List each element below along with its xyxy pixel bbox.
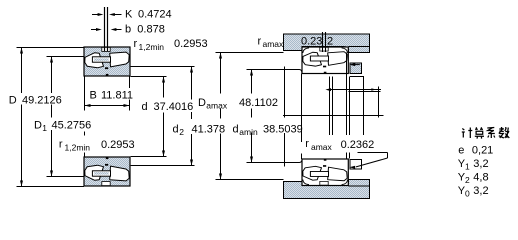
d extension bottom [131, 156, 167, 158]
svg-text:1,2min: 1,2min [139, 42, 165, 52]
B extension lines [85, 76, 130, 111]
shaft step lines top [350, 76, 364, 78]
rollers top [85, 47, 129, 76]
rollers top right [303, 47, 347, 73]
D1 dimension line [51, 57, 53, 177]
svg-text:e: e [458, 145, 464, 157]
rollers bottom (mirrored) [85, 157, 129, 186]
svg-text:0.4724: 0.4724 [138, 9, 172, 21]
svg-text:0: 0 [465, 189, 470, 199]
lube hole lines right figure [322, 32, 324, 52]
svg-text:3,2: 3,2 [473, 185, 488, 197]
svg-text:3,2: 3,2 [473, 158, 488, 170]
svg-text:0,21: 0,21 [472, 145, 493, 157]
svg-text:0.2953: 0.2953 [101, 139, 135, 151]
Damax extension top [216, 52, 284, 54]
svg-text:b: b [125, 24, 131, 36]
shaft end face [284, 67, 286, 118]
cage inner hatch top [94, 58, 109, 60]
b dimension arrows [91, 29, 122, 31]
Damax extension bottom [216, 179, 284, 181]
bearing block bottom right [302, 159, 348, 186]
d extension top [131, 76, 167, 78]
K dimension arrows [92, 14, 122, 16]
svg-text:1: 1 [465, 162, 470, 172]
axis centerline [283, 115, 384, 117]
svg-text:38.5039: 38.5039 [263, 124, 303, 136]
svg-text:D: D [34, 120, 42, 132]
svg-text:r: r [59, 139, 63, 151]
d2 extension top [131, 66, 195, 68]
svg-text:0.878: 0.878 [137, 24, 165, 36]
svg-text:1,2min: 1,2min [65, 143, 91, 153]
damin dimension line [251, 70, 253, 163]
svg-text:11.811: 11.811 [101, 90, 133, 102]
计 [462, 128, 473, 139]
damin extension top [247, 69, 285, 71]
svg-text:1: 1 [42, 123, 47, 133]
B dimension line [85, 105, 130, 107]
bearing block bottom [84, 157, 130, 186]
damin extension bottom [247, 162, 285, 164]
svg-text:amax: amax [263, 39, 285, 49]
lubrication hole lines [104, 7, 106, 51]
d dimension line [163, 77, 165, 157]
svg-text:d: d [233, 124, 239, 136]
cage inner hatch bottom [94, 172, 109, 174]
svg-text:49.2126: 49.2126 [22, 95, 62, 107]
outer ring corner arcs bottom right block [303, 180, 348, 185]
svg-text:d: d [173, 124, 179, 136]
svg-text:r: r [305, 138, 309, 150]
collar bottom [350, 160, 362, 170]
r bottom leader ticks [84, 132, 86, 136]
svg-text:2: 2 [327, 36, 333, 48]
shaft shoulder bottom surface [285, 159, 303, 163]
collar top [350, 63, 362, 74]
svg-text:amin: amin [239, 127, 258, 137]
svg-text:2: 2 [465, 175, 470, 185]
bearing block top [84, 47, 130, 76]
housing bore line under top shoulder [349, 46, 370, 48]
middle silhouette verticals [302, 53, 364, 160]
d2 dimension line [191, 67, 193, 166]
svg-text:4,8: 4,8 [473, 172, 488, 184]
shaft shoulder top surface [285, 70, 303, 74]
svg-text:D: D [9, 95, 17, 107]
D dimension line [21, 48, 23, 187]
算 [475, 127, 484, 138]
svg-text:amax: amax [311, 142, 333, 152]
svg-text:r: r [258, 36, 262, 48]
svg-text:amax: amax [206, 101, 228, 111]
D1 extension top [47, 56, 85, 58]
svg-text:B: B [90, 90, 97, 102]
D extension top [17, 47, 85, 49]
svg-text:K: K [125, 9, 133, 21]
d2 extension bottom [131, 165, 195, 167]
svg-text:37.4016: 37.4016 [154, 101, 194, 113]
svg-text:r: r [134, 38, 138, 50]
svg-text:d: d [142, 101, 148, 113]
svg-text:45.2756: 45.2756 [52, 120, 92, 132]
ra bottom leader [358, 152, 388, 154]
housing bottom [284, 180, 370, 199]
D1 extension bottom [47, 176, 85, 178]
housing bore line under bottom shoulder [349, 185, 370, 187]
housing top [284, 34, 370, 53]
svg-text:2: 2 [179, 127, 184, 137]
数 [499, 127, 510, 138]
系 [487, 128, 495, 139]
svg-text:D: D [198, 97, 206, 109]
bearing block top right [302, 47, 348, 74]
title 计算系数 (drawn glyphs) [462, 127, 510, 139]
ra top arrow [349, 63, 355, 66]
svg-text:48.1102: 48.1102 [239, 97, 278, 109]
outer ring corner arcs top right block [303, 48, 348, 53]
D extension bottom [17, 186, 85, 188]
rollers bottom right (mirrored) [303, 159, 347, 185]
svg-text:0.23: 0.23 [301, 36, 322, 48]
svg-text:0.2953: 0.2953 [174, 38, 208, 50]
Damax dimension line [220, 53, 222, 180]
svg-text:0.2362: 0.2362 [341, 139, 375, 151]
